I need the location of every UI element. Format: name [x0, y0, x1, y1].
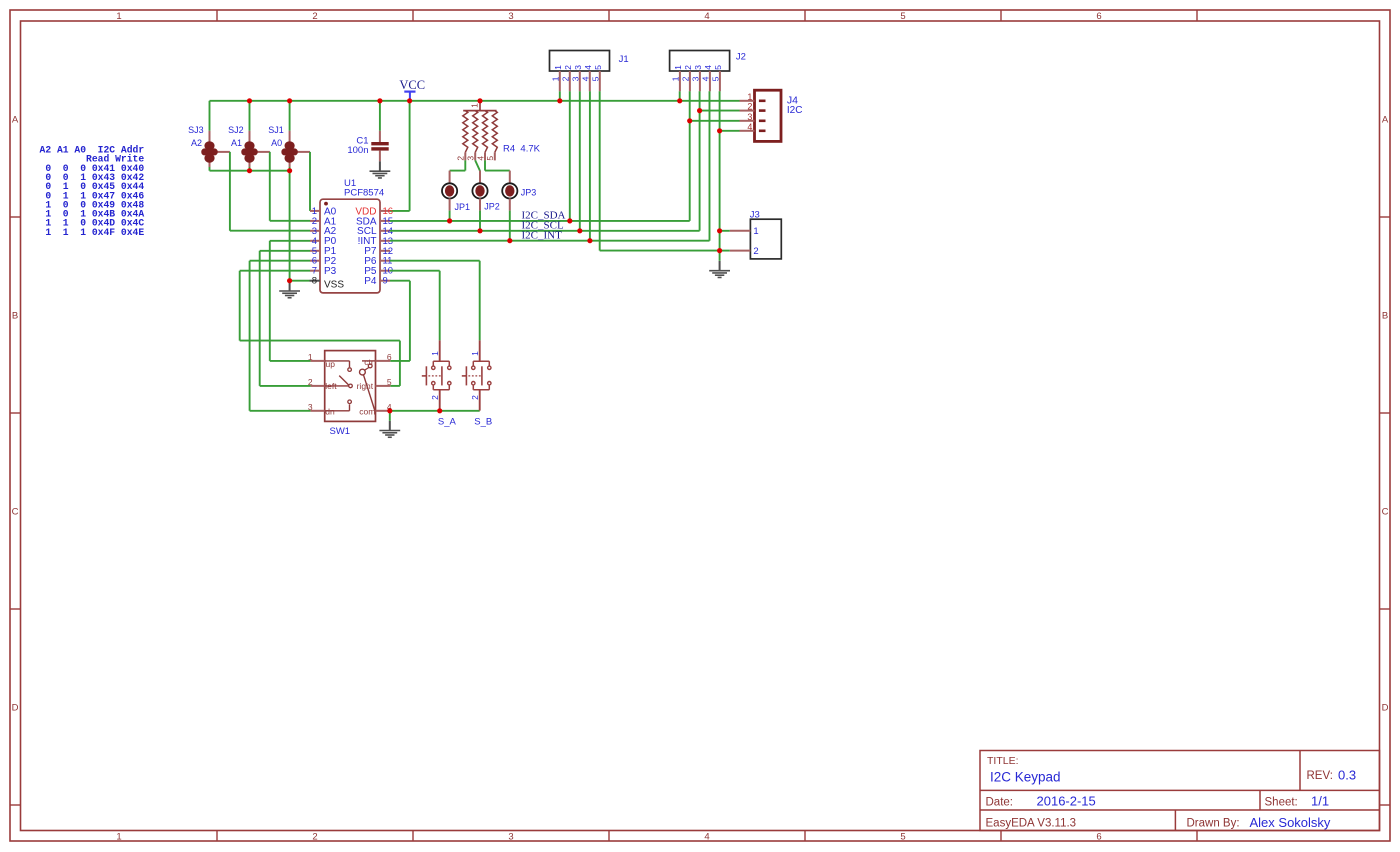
svg-text:JP3: JP3 — [521, 187, 537, 197]
svg-text:6: 6 — [387, 352, 392, 362]
svg-text:2016-2-15: 2016-2-15 — [1037, 794, 1096, 809]
svg-text:1: 1 — [747, 92, 752, 102]
svg-text:EasyEDA V3.11.3: EasyEDA V3.11.3 — [986, 818, 1077, 830]
svg-text:D: D — [1382, 703, 1389, 714]
svg-text:2: 2 — [470, 395, 480, 400]
svg-text:1: 1 — [753, 226, 758, 237]
svg-text:2: 2 — [456, 156, 466, 161]
svg-text:A0: A0 — [271, 138, 282, 148]
svg-text:A: A — [1382, 115, 1389, 126]
svg-text:I2C: I2C — [787, 105, 803, 116]
svg-text:D: D — [12, 703, 19, 714]
svg-text:2: 2 — [681, 76, 691, 81]
svg-text:2: 2 — [563, 65, 573, 70]
svg-text:J1: J1 — [619, 54, 629, 65]
svg-text:I2C Keypad: I2C Keypad — [990, 770, 1061, 785]
svg-text:6: 6 — [1096, 11, 1101, 22]
svg-text:8: 8 — [312, 276, 317, 287]
svg-text:C: C — [12, 507, 19, 518]
svg-text:2: 2 — [312, 832, 317, 843]
svg-text:up: up — [326, 359, 336, 369]
svg-text:JP1: JP1 — [455, 202, 471, 212]
svg-text:REV:: REV: — [1307, 770, 1333, 782]
svg-text:VCC: VCC — [399, 78, 425, 92]
svg-text:3: 3 — [466, 156, 476, 161]
svg-text:4: 4 — [704, 11, 709, 22]
svg-text:J3: J3 — [750, 209, 760, 220]
svg-text:Drawn By:: Drawn By: — [1187, 818, 1240, 830]
svg-text:9: 9 — [383, 276, 388, 287]
svg-text:VSS: VSS — [324, 279, 344, 290]
svg-text:right: right — [357, 381, 374, 391]
svg-text:2: 2 — [430, 395, 440, 400]
svg-text:2: 2 — [312, 11, 317, 22]
svg-text:PCF8574: PCF8574 — [344, 187, 384, 198]
svg-text:SW1: SW1 — [330, 426, 351, 437]
svg-text:A: A — [12, 115, 19, 126]
svg-text:5: 5 — [900, 832, 905, 843]
svg-text:A1: A1 — [231, 138, 242, 148]
svg-text:1: 1 — [116, 832, 121, 843]
svg-text:P3: P3 — [324, 266, 337, 277]
svg-text:5: 5 — [713, 65, 723, 70]
svg-text:5: 5 — [485, 156, 495, 161]
svg-text:B: B — [1382, 311, 1388, 322]
svg-text:6: 6 — [1096, 832, 1101, 843]
svg-text:5: 5 — [591, 76, 601, 81]
svg-text:3: 3 — [308, 402, 313, 412]
svg-text:1: 1 — [553, 65, 563, 70]
svg-text:3: 3 — [693, 65, 703, 70]
svg-text:0.3: 0.3 — [1338, 768, 1356, 783]
svg-text:5: 5 — [593, 65, 603, 70]
svg-text:2: 2 — [561, 76, 571, 81]
svg-text:com: com — [359, 406, 375, 416]
svg-text:3: 3 — [571, 76, 581, 81]
svg-text:SJ1: SJ1 — [268, 125, 284, 135]
svg-text:5: 5 — [711, 76, 721, 81]
svg-text:Alex Sokolsky: Alex Sokolsky — [1250, 815, 1331, 830]
svg-text:3: 3 — [747, 112, 752, 122]
svg-text:3: 3 — [508, 11, 513, 22]
svg-text:JP2: JP2 — [484, 202, 500, 212]
svg-text:4: 4 — [703, 65, 713, 70]
svg-text:1: 1 — [430, 351, 440, 356]
svg-text:2: 2 — [753, 246, 758, 257]
svg-text:B: B — [12, 311, 18, 322]
svg-text:1: 1 — [470, 103, 480, 108]
svg-text:TITLE:: TITLE: — [987, 755, 1019, 767]
svg-text:4: 4 — [475, 156, 485, 161]
svg-text:1 1 1 0x4F 0x4E: 1 1 1 0x4F 0x4E — [40, 227, 145, 238]
svg-text:5: 5 — [387, 377, 392, 387]
svg-text:1: 1 — [470, 351, 480, 356]
svg-text:Sheet:: Sheet: — [1265, 797, 1298, 809]
svg-text:3: 3 — [691, 76, 701, 81]
svg-text:C: C — [1382, 507, 1389, 518]
svg-text:P4: P4 — [364, 276, 377, 287]
svg-text:1: 1 — [551, 76, 561, 81]
svg-text:4: 4 — [704, 832, 709, 843]
svg-text:2: 2 — [308, 377, 313, 387]
svg-text:4: 4 — [581, 76, 591, 81]
svg-text:A2: A2 — [191, 138, 202, 148]
svg-text:4: 4 — [747, 122, 752, 132]
svg-text:2: 2 — [747, 102, 752, 112]
svg-text:4: 4 — [583, 65, 593, 70]
svg-text:3: 3 — [573, 65, 583, 70]
svg-text:S_B: S_B — [474, 416, 492, 427]
svg-text:R4 4.7K: R4 4.7K — [503, 143, 541, 154]
svg-text:SJ3: SJ3 — [188, 125, 204, 135]
svg-text:3: 3 — [508, 832, 513, 843]
svg-text:1/1: 1/1 — [1311, 794, 1329, 809]
svg-text:left: left — [325, 381, 337, 391]
svg-text:I2C_INT: I2C_INT — [522, 229, 563, 241]
svg-text:J2: J2 — [736, 51, 746, 62]
svg-text:2: 2 — [683, 65, 693, 70]
svg-text:S_A: S_A — [438, 416, 457, 427]
svg-text:100n: 100n — [347, 145, 368, 156]
svg-text:ctr: ctr — [364, 357, 374, 367]
svg-text:SJ2: SJ2 — [228, 125, 244, 135]
svg-text:4: 4 — [701, 76, 711, 81]
svg-text:Date:: Date: — [986, 797, 1014, 809]
svg-text:1: 1 — [673, 65, 683, 70]
svg-text:dn: dn — [325, 406, 335, 416]
svg-text:1: 1 — [116, 11, 121, 22]
svg-text:5: 5 — [900, 11, 905, 22]
svg-text:1: 1 — [308, 352, 313, 362]
svg-text:1: 1 — [671, 76, 681, 81]
